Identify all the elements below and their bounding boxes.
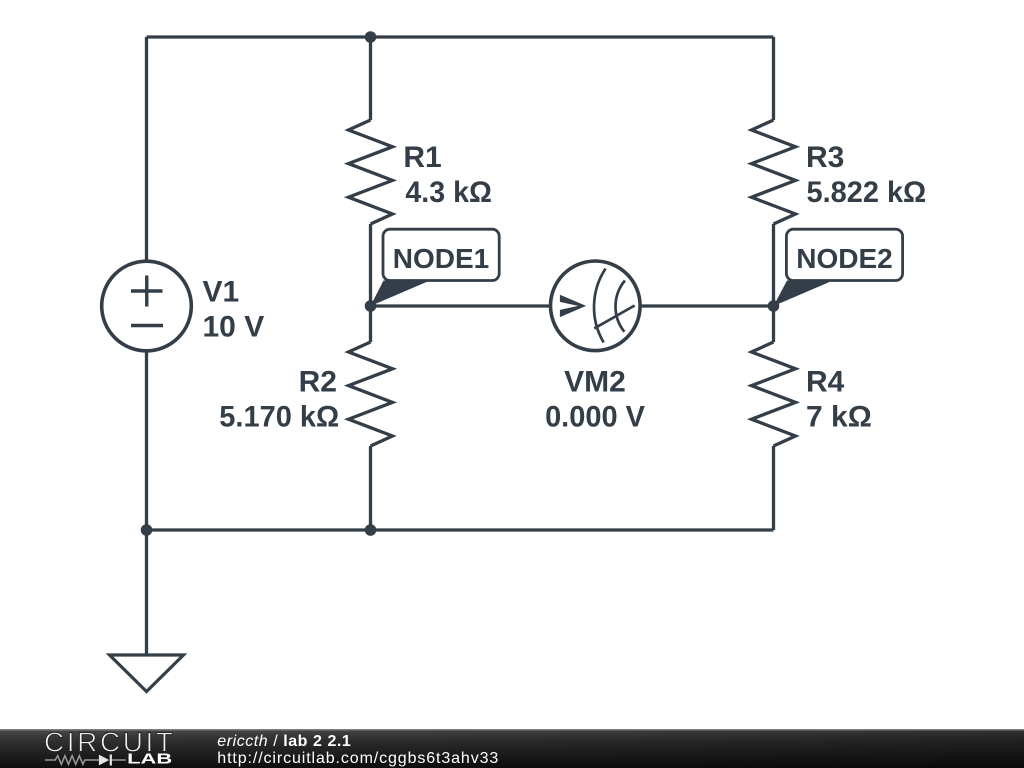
- svg-text:NODE2: NODE2: [796, 243, 892, 274]
- svg-text:4.3 kΩ: 4.3 kΩ: [405, 175, 491, 209]
- node NODE1 callout tail: [371, 281, 431, 307]
- svg-text:V1: V1: [203, 276, 240, 309]
- logo diode bar: [110, 755, 112, 766]
- wire top rail: [147, 35, 774, 38]
- wire R1-R2 middle (node1 column): [369, 224, 372, 342]
- node NODE2 callout tail: [774, 281, 834, 307]
- svg-text:R2: R2: [299, 366, 337, 399]
- VM2 chevron: [560, 295, 586, 317]
- wire R4 bottom lead: [772, 446, 775, 530]
- svg-text:LAB: LAB: [127, 751, 172, 767]
- junction dot bottom-middle: [365, 524, 377, 536]
- svg-text:ericcth / lab 2 2.1: ericcth / lab 2 2.1: [217, 733, 351, 750]
- svg-text:5.170 kΩ: 5.170 kΩ: [219, 400, 339, 434]
- wire node1 to voltmeter: [371, 304, 554, 307]
- junction dot node B (NODE2): [768, 300, 780, 312]
- junction dot node A (NODE1): [365, 300, 377, 312]
- node NODE2 callout box: [786, 229, 902, 280]
- resistor R2 zigzag: [349, 342, 393, 446]
- VM2 needle: [594, 306, 634, 329]
- logo diode triangle: [99, 755, 109, 766]
- V1 plus sign: [131, 276, 163, 307]
- resistor R4 zigzag: [752, 342, 796, 446]
- svg-text:R4: R4: [806, 366, 845, 399]
- VM2 meter arc small: [615, 281, 624, 332]
- logo squiggle wire: [45, 756, 126, 765]
- svg-text:10 V: 10 V: [203, 311, 265, 344]
- wire left rail (V1 branch): [145, 37, 148, 530]
- resistor R1 zigzag: [349, 120, 393, 224]
- resistor R3 zigzag: [752, 120, 796, 224]
- svg-text:http://circuitlab.com/cggbs6t3: http://circuitlab.com/cggbs6t3ahv33: [217, 750, 498, 767]
- footer bar top hairline: [0, 729, 1024, 731]
- junction dot top node: [365, 31, 377, 43]
- svg-text:R3: R3: [806, 141, 844, 174]
- ground symbol: [110, 655, 184, 692]
- svg-text:7 kΩ: 7 kΩ: [806, 401, 872, 434]
- junction dot bottom-left: [141, 524, 153, 536]
- wire R1 top lead: [369, 37, 372, 120]
- svg-text:VM2: VM2: [564, 366, 626, 399]
- voltage source V1 circle: [102, 261, 192, 351]
- V1 minus sign: [131, 324, 163, 327]
- wire bottom rail: [147, 528, 774, 531]
- wire R3 top lead: [772, 37, 775, 120]
- wire R3-R4 middle (node2 column): [772, 224, 775, 342]
- svg-text:5.822 kΩ: 5.822 kΩ: [807, 176, 927, 210]
- voltmeter VM2 circle: [551, 261, 641, 351]
- svg-text:NODE1: NODE1: [393, 243, 489, 274]
- svg-text:R1: R1: [403, 141, 441, 174]
- node NODE1 callout box: [383, 229, 499, 280]
- wire ground stem: [145, 530, 148, 655]
- wire voltmeter to node2: [637, 304, 774, 307]
- wire R2 bottom lead: [369, 446, 372, 530]
- svg-text:0.000 V: 0.000 V: [545, 400, 645, 434]
- VM2 meter arc large: [594, 269, 605, 343]
